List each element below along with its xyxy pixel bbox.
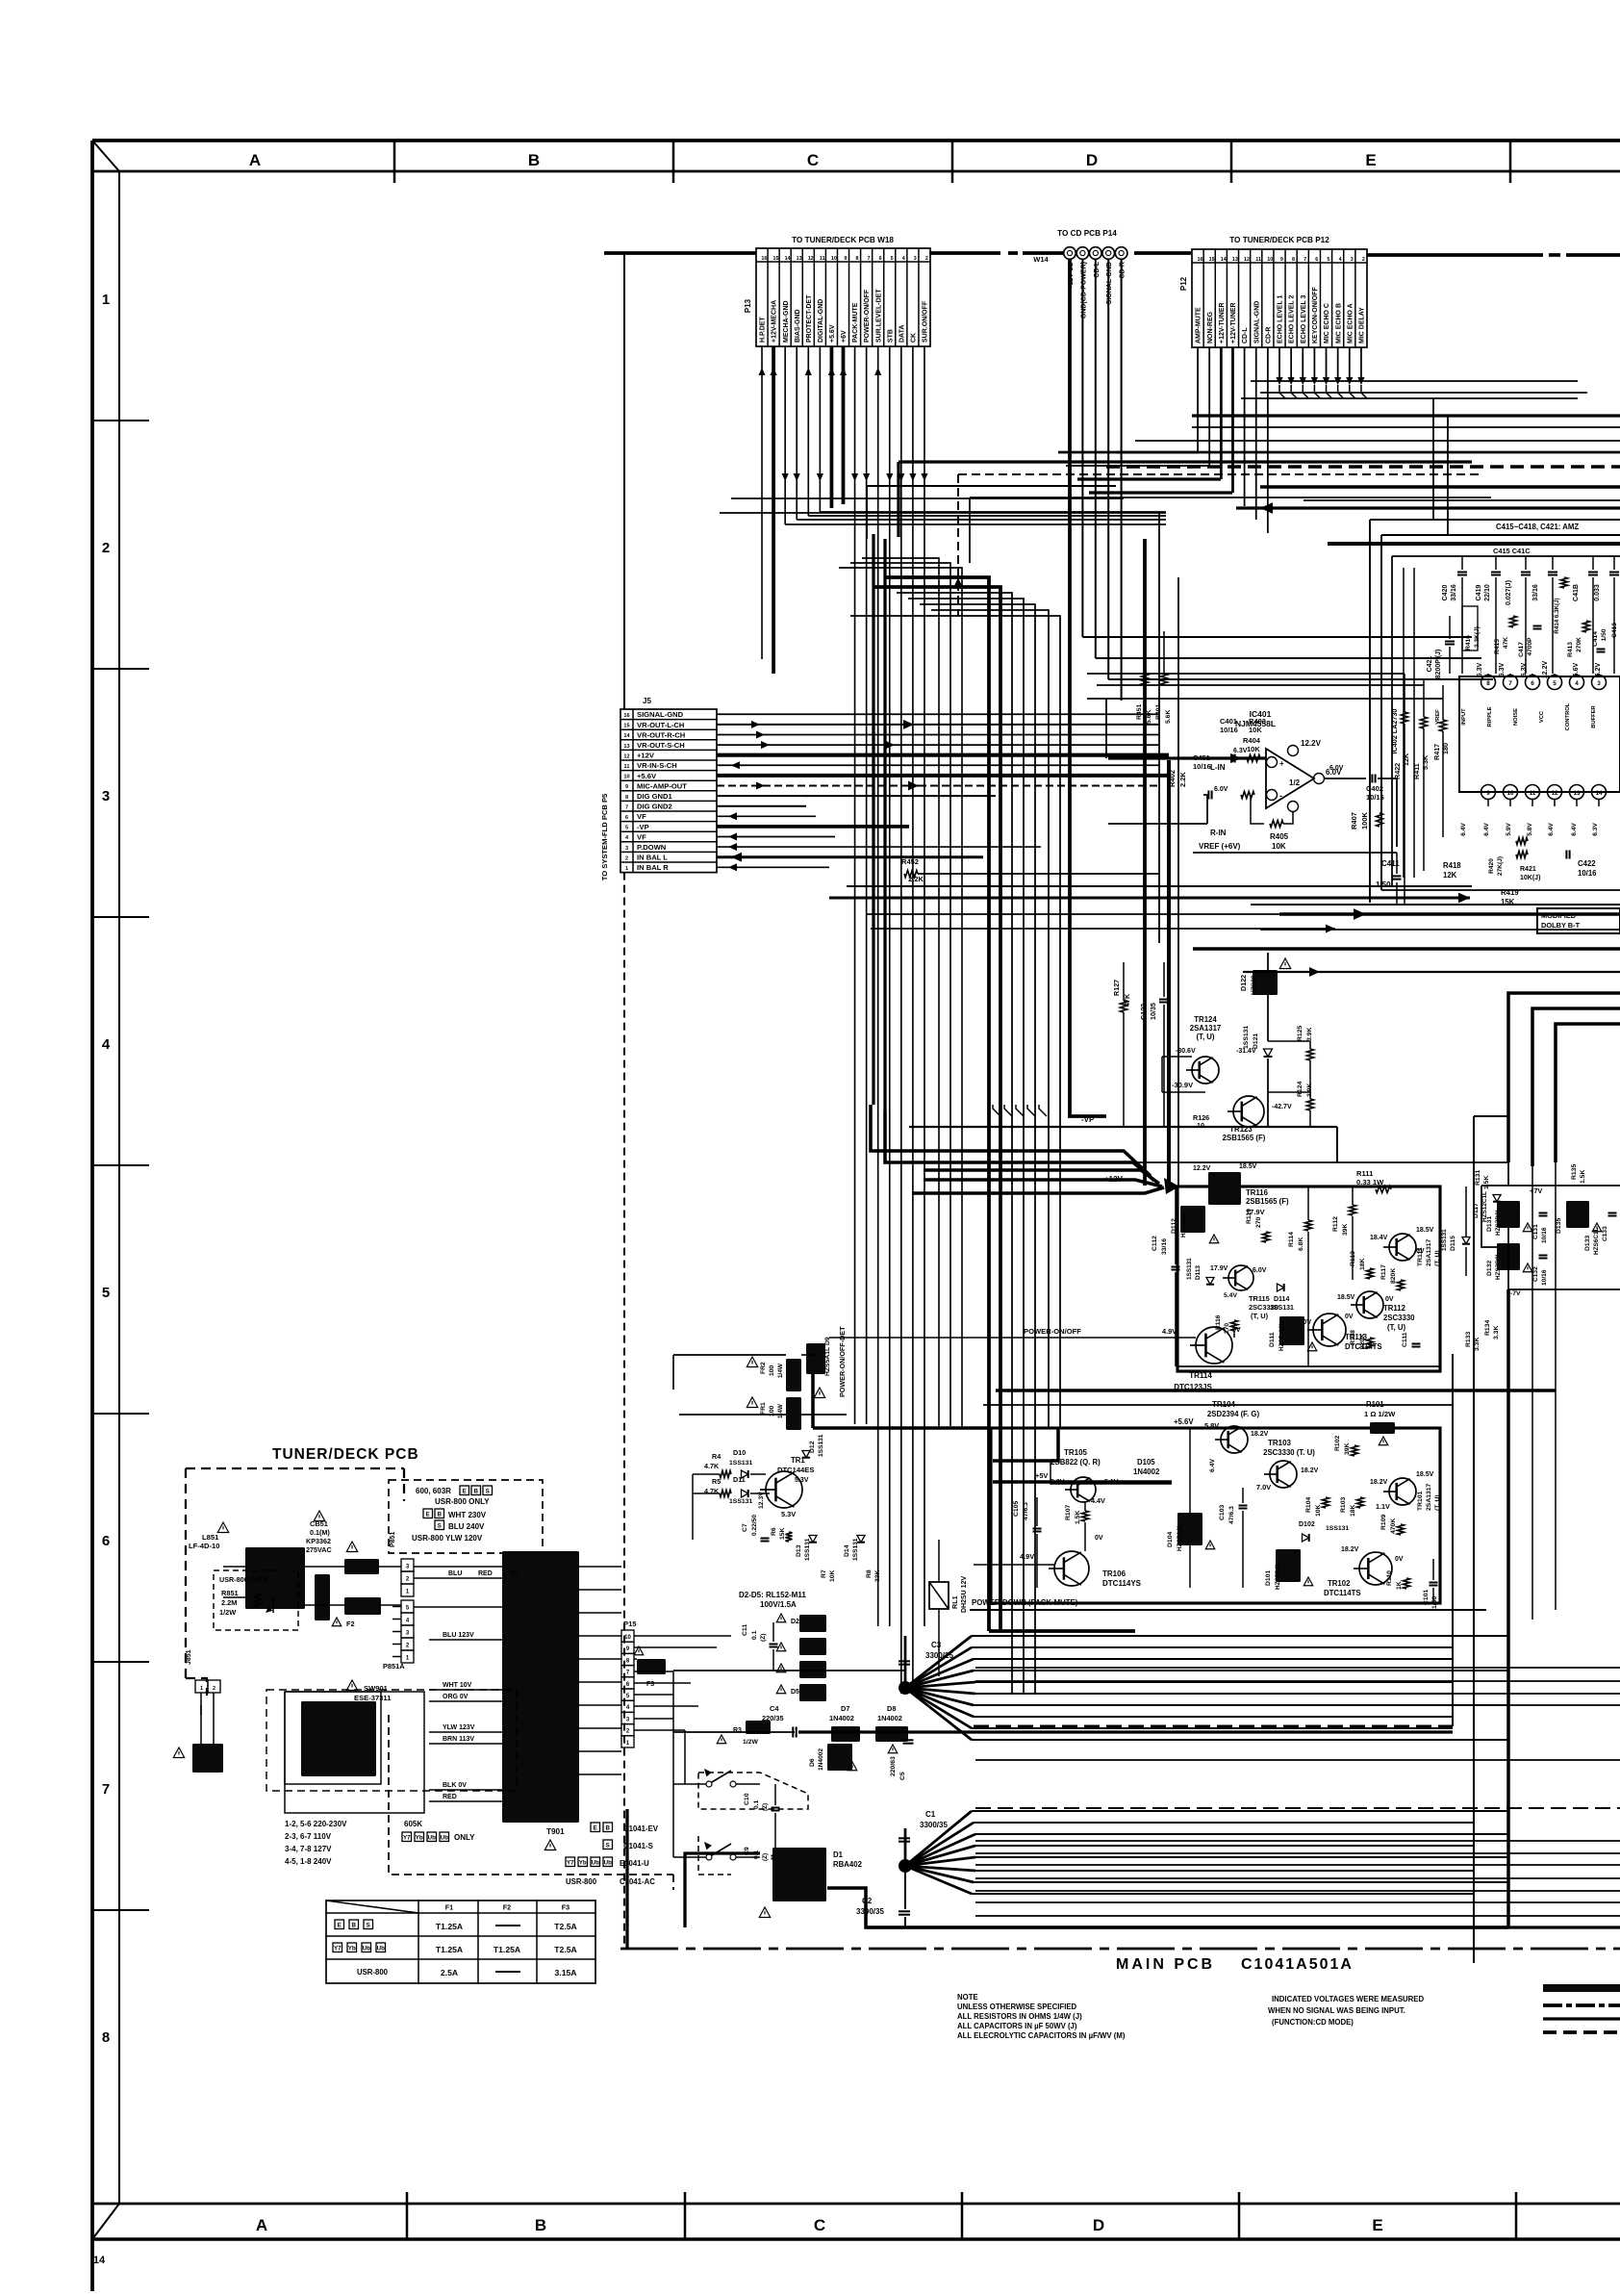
svg-text:Y7: Y7 (334, 1945, 342, 1952)
POWER-ON/OFF wire (829, 1337, 1196, 1339)
svg-text:TO TUNER/DECK PCB W18: TO TUNER/DECK PCB W18 (792, 236, 894, 244)
svg-text:33K: 33K (874, 1569, 881, 1582)
svg-text:7: 7 (868, 256, 871, 262)
POWER-DOWN wire (970, 1609, 1486, 1611)
svg-text:D5: D5 (791, 1689, 799, 1696)
svg-text:R418: R418 (1443, 861, 1461, 870)
svg-text:2SC3330: 2SC3330 (1383, 1314, 1415, 1322)
svg-text:+12V-TUNER: +12V-TUNER (1230, 302, 1237, 344)
svg-text:C7: C7 (742, 1523, 748, 1532)
svg-text:+12V: +12V (637, 752, 655, 760)
svg-text:1SS131: 1SS131 (852, 1538, 859, 1561)
svg-text:D113: D113 (1195, 1265, 1202, 1280)
svg-text:HZS7B2L: HZS7B2L (1275, 1562, 1281, 1590)
svg-text:+12V-TUNER: +12V-TUNER (1219, 302, 1226, 344)
svg-text:Yb: Yb (579, 1859, 587, 1866)
svg-text:C3: C3 (931, 1641, 942, 1649)
svg-text:1SS131: 1SS131 (1270, 1305, 1294, 1312)
svg-text:1/50: 1/50 (1431, 1596, 1438, 1609)
svg-text:2: 2 (625, 855, 628, 861)
zener D133 blob (1566, 1201, 1589, 1228)
svg-text:DIG GND1: DIG GND1 (637, 792, 672, 801)
svg-text:F1: F1 (445, 1903, 453, 1912)
wires from P12 pins down with arrows (1197, 347, 1199, 452)
svg-text:1N4002: 1N4002 (829, 1714, 854, 1722)
svg-text:6.3V: 6.3V (1233, 748, 1248, 754)
diode D121 1SS131 (1264, 1049, 1273, 1057)
svg-text:DIGITAL-GND: DIGITAL-GND (818, 299, 824, 343)
diode D113 1SS131 (1206, 1278, 1214, 1285)
svg-text:(FUNCTION:CD MODE): (FUNCTION:CD MODE) (1272, 2018, 1354, 2027)
svg-text:USR-800 ONLY: USR-800 ONLY (219, 1575, 268, 1584)
svg-text:S: S (367, 1922, 370, 1928)
svg-text:10/16: 10/16 (1193, 762, 1211, 771)
svg-text:2.2M: 2.2M (221, 1598, 237, 1607)
thick wire from D1 down (685, 1853, 760, 1927)
top bus wire to P13 (604, 251, 756, 255)
svg-text:6.0V: 6.0V (1329, 765, 1344, 772)
svg-text:-: - (1279, 791, 1282, 801)
dashed switch outline (698, 1773, 808, 1809)
IC402 pin circles bottom row (1481, 785, 1496, 800)
svg-text:3.3K: 3.3K (1493, 1326, 1500, 1339)
svg-text:R405: R405 (1270, 832, 1289, 841)
svg-text:8200P (J): 8200P (J) (1435, 650, 1442, 679)
svg-text:DTC114TS: DTC114TS (1324, 1589, 1361, 1597)
svg-text:R125: R125 (1297, 1026, 1304, 1041)
svg-text:6: 6 (625, 815, 628, 821)
svg-text:B: B (535, 2216, 546, 2234)
svg-text:C112: C112 (1152, 1236, 1158, 1251)
svg-text:33/16: 33/16 (1451, 584, 1457, 601)
svg-text:TR115: TR115 (1249, 1294, 1270, 1303)
svg-text:7: 7 (1304, 257, 1306, 263)
svg-text:R109: R109 (1380, 1515, 1387, 1530)
svg-text:DOLBY B-T: DOLBY B-T (1541, 921, 1581, 930)
dashed vertical wire with arrow (958, 473, 1481, 475)
svg-text:8: 8 (1486, 680, 1490, 687)
svg-text:4-5, 1-8 240V: 4-5, 1-8 240V (285, 1857, 332, 1866)
svg-text:TR114: TR114 (1189, 1371, 1212, 1380)
svg-text:MAIN PCB: MAIN PCB (1116, 1956, 1215, 1973)
svg-text:STB: STB (887, 329, 894, 343)
svg-text:D115: D115 (1450, 1236, 1456, 1251)
svg-text:E: E (1365, 151, 1376, 169)
svg-text:6.3V: 6.3V (1477, 662, 1483, 676)
capacitor C132 (1539, 1254, 1548, 1256)
svg-text:1SS131: 1SS131 (818, 1434, 824, 1457)
svg-text:6.8K: 6.8K (1298, 1237, 1304, 1251)
svg-text:+5.6V: +5.6V (1174, 1417, 1194, 1426)
svg-text:1SS131: 1SS131 (1326, 1525, 1349, 1532)
svg-text:2: 2 (925, 256, 928, 262)
svg-text:A: A (249, 151, 261, 169)
svg-text:2SB822 (Q. R): 2SB822 (Q. R) (1050, 1458, 1101, 1467)
svg-text:C101: C101 (1423, 1590, 1430, 1605)
svg-text:3.3K(J): 3.3K(J) (1474, 626, 1481, 648)
svg-text:+5.6V: +5.6V (637, 772, 657, 780)
svg-text:47/6.3: 47/6.3 (1228, 1506, 1235, 1524)
svg-text:VF: VF (637, 832, 646, 841)
svg-text:4.4V: 4.4V (1091, 1496, 1105, 1505)
svg-text:D104: D104 (1167, 1532, 1174, 1547)
lower regulator block TR10x outer (991, 1428, 1440, 1603)
svg-text:1K: 1K (1396, 1581, 1403, 1590)
IC402 LA2730 block outer boxes (1370, 519, 1620, 521)
svg-text:1N4002: 1N4002 (818, 1748, 824, 1771)
svg-text:9: 9 (844, 256, 847, 262)
svg-text:HZS7B8L: HZS7B8L (1495, 1252, 1502, 1280)
svg-text:2SD2394 (F. G): 2SD2394 (F. G) (1207, 1410, 1260, 1418)
svg-text:C421: C421 (1427, 656, 1433, 673)
svg-text:18.2V: 18.2V (1301, 1467, 1319, 1474)
svg-text:C419: C419 (1476, 585, 1482, 601)
svg-text:R851: R851 (221, 1589, 239, 1597)
svg-text:NOISE: NOISE (1513, 708, 1519, 726)
svg-text:-30.9V: -30.9V (1172, 1081, 1193, 1089)
svg-text:5.3V: 5.3V (781, 1510, 796, 1518)
lines bottom of IC area (1381, 889, 1620, 891)
svg-text:18.5V: 18.5V (1239, 1163, 1257, 1170)
wire R-IN (1108, 823, 1207, 825)
svg-text:D122: D122 (1239, 975, 1248, 991)
svg-text:L-IN: L-IN (1210, 763, 1226, 772)
svg-text:ALL CAPACITORS IN µF 50WV (J): ALL CAPACITORS IN µF 50WV (J) (957, 2022, 1077, 2030)
svg-text:3-4, 7-8 127V: 3-4, 7-8 127V (285, 1845, 332, 1853)
svg-text:12: 12 (623, 753, 629, 759)
right-side nested thick loops (1279, 912, 1620, 916)
svg-text:R107: R107 (1065, 1505, 1072, 1520)
svg-text:P.DOWN: P.DOWN (637, 843, 666, 852)
transistor TR104 2SD2394 (1221, 1426, 1248, 1453)
transistor TR115 2SC3330 (1228, 1265, 1253, 1290)
svg-text:F2: F2 (346, 1620, 355, 1628)
svg-text:C4: C4 (770, 1704, 779, 1713)
svg-text:13: 13 (623, 744, 629, 750)
svg-text:R134: R134 (1484, 1320, 1491, 1336)
svg-text:BLU 240V: BLU 240V (448, 1522, 485, 1531)
svg-text:D12: D12 (809, 1441, 816, 1453)
svg-text:2.5A: 2.5A (441, 1968, 458, 1977)
svg-text:5.3K: 5.3K (1421, 754, 1430, 770)
svg-text:8: 8 (102, 2029, 110, 2046)
svg-text:-30.6V: -30.6V (1176, 1048, 1196, 1055)
resistor R452 (904, 871, 918, 878)
svg-text:DH2SU 12V: DH2SU 12V (961, 1576, 968, 1613)
svg-text:P13: P13 (744, 298, 752, 313)
svg-text:S: S (486, 1488, 490, 1494)
svg-text:1/2W: 1/2W (743, 1739, 758, 1746)
svg-text:-31.4V: -31.4V (1236, 1048, 1256, 1055)
svg-text:KP3362: KP3362 (306, 1537, 331, 1545)
diode D114 1SS131 (1278, 1284, 1284, 1291)
svg-text:R119: R119 (1246, 1209, 1253, 1224)
svg-text:605K: 605K (404, 1820, 422, 1828)
svg-text:C417: C417 (1518, 642, 1525, 657)
svg-text:D11: D11 (733, 1475, 746, 1484)
svg-text:SIGNAL-GND: SIGNAL-GND (637, 710, 684, 719)
svg-text:R403: R403 (1249, 717, 1266, 726)
svg-text:HZS5A1L D9: HZS5A1L D9 (824, 1337, 831, 1376)
svg-text:POWER-ON/OFF: POWER-ON/OFF (1024, 1327, 1081, 1336)
svg-text:(Z): (Z) (762, 1803, 769, 1811)
svg-text:13: 13 (797, 256, 802, 262)
svg-text:R6: R6 (771, 1527, 777, 1536)
AC inlet blob (173, 1748, 184, 1758)
svg-text:14: 14 (623, 733, 630, 739)
svg-text:IC402 LA2730: IC402 LA2730 (1390, 709, 1399, 754)
svg-text:CB51: CB51 (310, 1519, 328, 1528)
svg-text:CK: CK (911, 333, 918, 343)
svg-text:600, 603R: 600, 603R (416, 1487, 451, 1495)
svg-text:T1.25A: T1.25A (436, 1922, 463, 1931)
svg-text:INDICATED VOLTAGES WERE MEASUR: INDICATED VOLTAGES WERE MEASURED (1272, 1995, 1424, 2003)
svg-text:2SA1317: 2SA1317 (1426, 1483, 1432, 1511)
svg-text:VR-OUT-L-CH: VR-OUT-L-CH (637, 721, 684, 729)
rectifier diode D2 blob (776, 1614, 786, 1622)
transformer T901 (502, 1551, 579, 1823)
wires from P13 pins down (761, 346, 763, 659)
svg-text:5: 5 (891, 256, 894, 262)
VREF label (1193, 852, 1397, 854)
svg-text:1N4002: 1N4002 (1133, 1467, 1160, 1476)
resistor R851 dashed option box (214, 1570, 298, 1630)
svg-text:C414: C414 (1592, 631, 1599, 647)
zener D104 blob (1177, 1513, 1202, 1545)
svg-text:13: 13 (1573, 790, 1581, 797)
long horizontals bottom right of power area (975, 1667, 1620, 1669)
svg-text:R416: R416 (1465, 635, 1472, 651)
svg-text:12K: 12K (1443, 871, 1457, 880)
svg-text:12.2V: 12.2V (1193, 1165, 1211, 1172)
svg-text:4700P: 4700P (1527, 637, 1533, 656)
transistor TR103 2SC3330 (1270, 1461, 1297, 1488)
svg-text:4.9V: 4.9V (1020, 1552, 1034, 1561)
svg-text:-42.7V: -42.7V (1272, 1104, 1292, 1110)
wires op-amp area to IC402 (1087, 673, 1405, 675)
svg-text:C451: C451 (1193, 753, 1210, 762)
svg-text:C: C (807, 151, 819, 169)
svg-text:10/35: 10/35 (1149, 1003, 1157, 1020)
T901 wire stubs and labels (414, 1566, 502, 1568)
svg-text:Ub: Ub (441, 1834, 448, 1841)
D131 cluster wires (1097, 1161, 1508, 1163)
svg-text:R103: R103 (1340, 1497, 1347, 1513)
svg-text:SIGNAL-GND: SIGNAL-GND (1253, 301, 1260, 344)
svg-text:12: 12 (1551, 790, 1558, 797)
svg-text:R102: R102 (1334, 1436, 1341, 1451)
svg-text:0.22/50: 0.22/50 (751, 1515, 758, 1536)
svg-text:3.15A: 3.15A (555, 1968, 577, 1977)
svg-text:C11: C11 (742, 1624, 748, 1636)
svg-text:D8: D8 (887, 1704, 896, 1713)
svg-text:INPUT: INPUT (1461, 708, 1467, 726)
svg-text:NON-REG: NON-REG (1207, 311, 1214, 344)
svg-text:5.3V: 5.3V (795, 1477, 809, 1484)
+5V stair rail (993, 1428, 1058, 1461)
svg-text:T901: T901 (546, 1827, 565, 1836)
long horizontal bus under P13 (720, 512, 1166, 514)
svg-text:-VP: -VP (637, 823, 649, 831)
fuse table (326, 1901, 595, 1983)
svg-text:RIPPLE: RIPPLE (1487, 706, 1493, 727)
svg-text:10K: 10K (1315, 1504, 1322, 1517)
svg-text:C133: C133 (1602, 1226, 1608, 1241)
svg-text:(T, U): (T, U) (1434, 1250, 1441, 1266)
svg-text:47K: 47K (1503, 637, 1509, 649)
svg-text:1/50: 1/50 (1601, 628, 1607, 641)
svg-text:ESE-37311: ESE-37311 (354, 1694, 392, 1702)
svg-text:Y7: Y7 (567, 1859, 574, 1866)
svg-text:D132: D132 (1486, 1261, 1493, 1276)
svg-text:R114: R114 (1288, 1232, 1295, 1247)
svg-text:10: 10 (831, 256, 837, 262)
svg-text:D135: D135 (1556, 1218, 1562, 1234)
svg-text:1/2: 1/2 (1289, 778, 1301, 787)
svg-text:VREF (+6V): VREF (+6V) (1199, 842, 1241, 851)
svg-text:10/16: 10/16 (1541, 1227, 1548, 1243)
svg-text:1SS131: 1SS131 (729, 1460, 752, 1467)
svg-text:C420: C420 (1442, 585, 1449, 601)
svg-text:C131: C131 (1532, 1224, 1539, 1239)
svg-text:ALL ELECROLYTIC CAPACITORS IN: ALL ELECROLYTIC CAPACITORS IN µF/WV (M) (957, 2031, 1126, 2040)
resistor R124 3.9K (1309, 1092, 1311, 1099)
svg-text:R415: R415 (1494, 639, 1501, 654)
fuse F2 blob (344, 1597, 381, 1615)
svg-text:C1041A501A: C1041A501A (1241, 1956, 1354, 1973)
W14 elbows right (1082, 636, 1472, 638)
svg-text:C122: C122 (1139, 1004, 1148, 1020)
svg-text:R422: R422 (1393, 763, 1402, 779)
svg-text:DTC114YS: DTC114YS (1102, 1579, 1142, 1588)
svg-text:1.5K: 1.5K (1483, 1176, 1490, 1189)
svg-text:3.3K: 3.3K (1474, 1338, 1481, 1351)
svg-text:100: 100 (769, 1365, 775, 1376)
wires from fan right (972, 1635, 1508, 1637)
svg-text:DIG GND2: DIG GND2 (637, 803, 672, 811)
svg-text:R401: R401 (1155, 704, 1162, 720)
svg-text:(T, U): (T, U) (1387, 1323, 1405, 1332)
svg-text:C415~C418, C421: AMZ: C415~C418, C421: AMZ (1496, 523, 1579, 531)
svg-text:BIAS-GND: BIAS-GND (795, 309, 801, 343)
svg-text:Ub: Ub (428, 1834, 436, 1841)
svg-text:D121: D121 (1253, 1033, 1259, 1049)
svg-text:ORG 0V: ORG 0V (443, 1694, 468, 1700)
svg-text:F2: F2 (503, 1903, 511, 1912)
svg-text:18K: 18K (1350, 1504, 1356, 1517)
transistor TR105 2SB822 (1071, 1477, 1096, 1502)
svg-text:+6V: +6V (841, 330, 848, 343)
svg-text:USR-800: USR-800 (566, 1877, 597, 1886)
svg-text:5.0V: 5.0V (1050, 1479, 1065, 1486)
svg-text:MIC-AMP-OUT: MIC-AMP-OUT (637, 781, 687, 790)
thick horizontal below TR11x (996, 1389, 1556, 1392)
svg-text:+5.6V: +5.6V (829, 324, 836, 343)
svg-text:FR1: FR1 (760, 1402, 767, 1415)
upper regulator block TR11x (1177, 1186, 1440, 1371)
svg-text:(Z): (Z) (762, 1853, 769, 1861)
svg-text:D10: D10 (733, 1448, 746, 1457)
svg-text:5.6K: 5.6K (1146, 710, 1152, 724)
svg-text:7: 7 (102, 1781, 110, 1798)
rectifier diode D4 blob (776, 1664, 786, 1672)
svg-text:P12: P12 (1179, 276, 1188, 291)
svg-text:16: 16 (761, 256, 767, 262)
svg-text:16: 16 (623, 713, 629, 719)
zener D122 HZS30 (1253, 970, 1278, 995)
svg-text:C10: C10 (744, 1793, 750, 1805)
svg-text:WHEN NO SIGNAL WAS BEING INPUT: WHEN NO SIGNAL WAS BEING INPUT. (1268, 2006, 1405, 2015)
svg-text:R407: R407 (1350, 812, 1358, 829)
svg-text:15: 15 (1209, 257, 1215, 263)
svg-text:6.3V: 6.3V (1592, 823, 1599, 836)
svg-text:39K: 39K (1344, 1442, 1351, 1455)
wire from P12 right dashed (1367, 253, 1531, 257)
capacitor C101 1/50 (1430, 1581, 1438, 1583)
svg-text:270: 270 (1255, 1216, 1262, 1228)
svg-text:E: E (426, 1511, 430, 1518)
svg-text:UNLESS OTHERWISE SPECIFIED: UNLESS OTHERWISE SPECIFIED (957, 2003, 1077, 2011)
svg-text:2.2K: 2.2K (1178, 772, 1187, 787)
svg-text:R110: R110 (1386, 1570, 1393, 1586)
svg-text:10K: 10K (1272, 842, 1286, 851)
svg-text:6: 6 (879, 256, 882, 262)
svg-text:2SA1317: 2SA1317 (1190, 1024, 1222, 1033)
svg-text:C415 C41C: C415 C41C (1493, 547, 1531, 555)
svg-text:4: 4 (102, 1036, 111, 1053)
svg-text:C422: C422 (1578, 859, 1596, 868)
main wire bus lower (673, 1731, 795, 1733)
thick bus through IC area (1328, 542, 1620, 546)
dashed big outline lower (266, 1690, 517, 1791)
svg-text:B: B (528, 151, 540, 169)
svg-text:MECHA-GND: MECHA-GND (783, 300, 790, 343)
svg-text:VR-OUT-S-CH: VR-OUT-S-CH (637, 741, 685, 750)
svg-text:H.P.DET: H.P.DET (760, 317, 767, 343)
svg-text:WHT 230V: WHT 230V (448, 1511, 487, 1519)
svg-text:5: 5 (1553, 680, 1557, 687)
svg-text:13: 13 (1232, 257, 1238, 263)
svg-text:C103: C103 (1219, 1505, 1226, 1520)
svg-text:ECHO LEVEL 3: ECHO LEVEL 3 (1301, 294, 1307, 344)
svg-text:R112: R112 (1332, 1216, 1339, 1232)
svg-text:1/50: 1/50 (1376, 880, 1391, 889)
svg-text:6.4V: 6.4V (1483, 823, 1490, 836)
svg-text:1SS131: 1SS131 (1243, 1026, 1250, 1049)
svg-text:5.9V: 5.9V (1506, 823, 1512, 836)
svg-text:0V: 0V (1345, 1314, 1354, 1320)
svg-text:-7V: -7V (1510, 1290, 1521, 1297)
svg-text:S: S (606, 1842, 610, 1849)
svg-text:C1: C1 (925, 1810, 936, 1819)
svg-text:Ub: Ub (592, 1859, 599, 1866)
svg-text:B: B (474, 1488, 479, 1494)
svg-text:CD-R: CD-R (1265, 327, 1272, 344)
svg-text:12: 12 (1244, 257, 1250, 263)
svg-text:10/16: 10/16 (1220, 726, 1238, 734)
svg-text:10: 10 (1506, 790, 1514, 797)
svg-text:MIC ECHO B: MIC ECHO B (1335, 303, 1342, 344)
svg-text:D131: D131 (1486, 1216, 1493, 1232)
svg-text:E: E (463, 1488, 467, 1494)
svg-text:T2.5A: T2.5A (554, 1922, 576, 1931)
svg-text:R113: R113 (1350, 1251, 1356, 1266)
svg-text:3300/35: 3300/35 (856, 1907, 884, 1916)
svg-text:2SB1565 (F): 2SB1565 (F) (1246, 1197, 1289, 1206)
svg-text:8: 8 (625, 795, 628, 801)
svg-text:2: 2 (102, 540, 110, 556)
svg-text:WHT 10V: WHT 10V (443, 1682, 472, 1689)
